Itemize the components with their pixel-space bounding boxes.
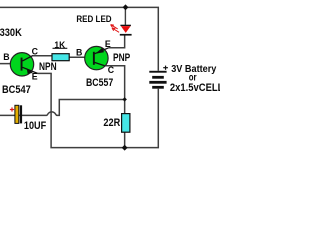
svg-text:B: B [76,47,82,57]
svg-text:PNP: PNP [113,52,130,64]
svg-text:C: C [108,65,115,75]
svg-text:RED LED: RED LED [76,14,111,24]
svg-text:BC547: BC547 [2,84,31,96]
svg-text:330K: 330K [0,27,22,39]
svg-text:2x1.5vCELL: 2x1.5vCELL [170,82,220,94]
svg-text:1K: 1K [54,40,65,50]
svg-text:10UF: 10UF [24,120,47,132]
svg-text:C: C [32,46,39,56]
svg-text:B: B [3,52,9,62]
svg-text:BC557: BC557 [86,77,113,89]
svg-text:NPN: NPN [39,61,57,73]
svg-text:E: E [105,39,111,49]
svg-text:22R: 22R [103,117,120,129]
svg-text:E: E [32,71,38,81]
